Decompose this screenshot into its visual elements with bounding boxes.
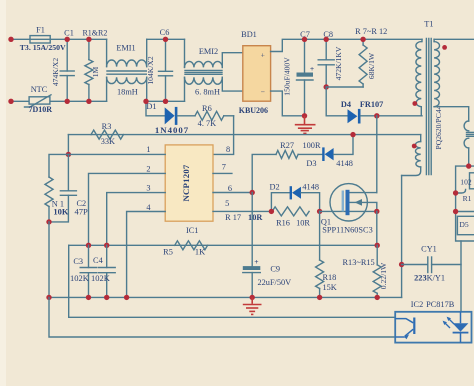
svg-text:R16: R16 <box>276 218 290 227</box>
resistor N1 10K <box>45 154 69 222</box>
capacitor CY1 223K/Y1 <box>402 244 461 282</box>
svg-text:PQ2620/PC44: PQ2620/PC44 <box>434 105 443 149</box>
wire: aux winding line R3 to T1 <box>68 134 420 136</box>
svg-text:D1: D1 <box>146 102 156 111</box>
wire: CY1 right vertical to network bottom and LED anode <box>460 241 462 312</box>
svg-text:C9: C9 <box>270 264 280 273</box>
svg-text:EMI2: EMI2 <box>199 47 218 56</box>
secondary winding <box>433 39 435 41</box>
node EMI1 / D1 junction <box>143 99 148 104</box>
svg-text:1M: 1M <box>91 66 100 77</box>
wire: secondary top output to right edge <box>434 38 474 40</box>
node gate <box>317 209 322 214</box>
node C4 gnd <box>104 295 109 300</box>
resistor R7~R12 68K/1W <box>355 27 387 87</box>
capacitor C4 102K <box>91 245 115 297</box>
svg-text:4148: 4148 <box>336 159 353 168</box>
transformer T1 PQ2620/PC44 <box>402 19 447 175</box>
node C7 bottom <box>302 113 307 118</box>
svg-text:D3: D3 <box>306 159 316 168</box>
common-mode choke EMI1 18mH <box>107 39 147 101</box>
svg-text:NTC: NTC <box>31 85 48 94</box>
wire: Vcc branch R27 top <box>252 154 276 192</box>
node C7 top <box>302 37 307 42</box>
node D4 cathode / drain junction <box>374 113 379 118</box>
node C9 gnd <box>250 295 255 300</box>
svg-text:CY1: CY1 <box>421 244 437 253</box>
node C1 bottom <box>65 99 70 104</box>
capacitor C2 47P <box>49 154 88 222</box>
pin 2 wire <box>89 173 166 245</box>
svg-text:2: 2 <box>146 164 150 173</box>
wire: BD1 - output down to C7 bottom <box>271 91 305 116</box>
svg-text:IC2: IC2 <box>411 300 423 309</box>
svg-text:R5: R5 <box>163 248 173 257</box>
wire: bottom line EMI1 to EMI2 <box>146 100 185 102</box>
resistor R6 4.7K <box>195 104 234 128</box>
wire: snubber bottom rail C8 to R7-R12 <box>326 86 363 88</box>
wire: CS rail (pin2/pin3 filter rail) <box>69 244 378 246</box>
pin 7 stub <box>213 172 232 174</box>
svg-text:EMI1: EMI1 <box>116 43 135 52</box>
wire: CS rail left end down to opto rail <box>69 245 396 317</box>
node sense <box>375 243 380 248</box>
node pin1 / R3 / C2 junction <box>66 152 71 157</box>
wire: NTC bottom line input N to EMI1 <box>11 100 107 102</box>
capacitor C1 474K/X2 <box>51 28 74 101</box>
IC U1: IC1 NCP1207 <box>165 145 213 235</box>
node C6 top <box>163 37 168 42</box>
pin 3 wire <box>107 193 166 246</box>
svg-text:3: 3 <box>146 184 150 193</box>
node secondary bottom / network <box>466 163 471 168</box>
thermistor NTC 7D10R <box>25 85 53 114</box>
node D3 / aux line junction <box>350 132 355 137</box>
svg-text:10R: 10R <box>248 213 263 222</box>
node network mid2 <box>453 209 458 214</box>
capacitor C9 22uF/50V <box>243 193 291 298</box>
svg-text:T1: T1 <box>424 19 433 28</box>
node R13-R15 gnd <box>375 295 380 300</box>
svg-text:T3. 15A/250V: T3. 15A/250V <box>20 43 66 52</box>
pin 6 wire <box>213 192 252 194</box>
diode D3 4148 <box>306 135 353 168</box>
primary winding <box>421 39 423 41</box>
node pin3 / rail <box>104 243 109 248</box>
svg-text:4. 7K: 4. 7K <box>198 119 216 128</box>
svg-text:FR107: FR107 <box>360 100 384 109</box>
svg-text:6. 8mH: 6. 8mH <box>195 87 220 96</box>
svg-text:1K: 1K <box>195 248 205 257</box>
wire: R3 left corner down to pin1 node <box>67 135 69 155</box>
svg-text:R3: R3 <box>102 122 112 131</box>
svg-text:104K/X2: 104K/X2 <box>146 56 155 84</box>
node C8 bottom <box>324 84 329 89</box>
resistor R3 33K <box>91 122 123 146</box>
capacitor C8 472K/1KV <box>318 30 343 87</box>
bridge rectifier BD1 KBU206 <box>239 30 271 115</box>
capacitor C3 102K <box>70 245 97 297</box>
capacitor C7 150uF/400V electrolytic <box>283 30 315 116</box>
svg-text:6: 6 <box>228 184 232 193</box>
svg-text:D2: D2 <box>270 182 280 191</box>
svg-text:D5: D5 <box>459 220 468 229</box>
ground: main ground below C9 <box>243 297 262 314</box>
resistor R16 10R <box>272 207 310 227</box>
wire: source down to sense node <box>376 211 378 245</box>
secondary feedback network (cut off at edge) <box>456 166 474 241</box>
svg-text:R 17: R 17 <box>225 213 241 222</box>
wire: secondary bottom output <box>434 107 469 121</box>
wire: snubber down to D4 anode <box>326 87 347 116</box>
capacitor C6 104K/X2 <box>146 28 173 101</box>
node pin4 gnd <box>124 295 129 300</box>
svg-text:18mH: 18mH <box>117 87 138 96</box>
resistor R13~R15 0.22/1W <box>343 245 388 297</box>
svg-text:1N4007: 1N4007 <box>155 125 189 135</box>
svg-text:R 7~R 12: R 7~R 12 <box>355 27 387 36</box>
svg-text:KBU206: KBU206 <box>239 106 268 115</box>
node: input terminal L <box>8 37 13 42</box>
svg-text:5: 5 <box>225 199 229 208</box>
svg-text:R18: R18 <box>323 273 337 282</box>
node C8 top <box>324 37 329 42</box>
svg-text:+: + <box>310 64 314 73</box>
inductor L (output choke at right edge) <box>464 121 474 166</box>
svg-text:R13~R15: R13~R15 <box>343 258 375 267</box>
wire: N1 bottom down to ground rail <box>48 222 50 298</box>
wire: top line EMI1 to EMI2 <box>147 38 185 40</box>
svg-text:+: + <box>254 257 258 266</box>
svg-text:102K: 102K <box>91 273 111 283</box>
resistor R1&R2 1M <box>82 28 107 101</box>
pin 4 wire <box>127 212 166 298</box>
node R18 gnd <box>317 295 322 300</box>
resistor R5 1K <box>163 241 207 257</box>
resistor R18 15K <box>316 211 337 297</box>
core <box>425 39 427 175</box>
svg-text:150uF/400V: 150uF/400V <box>283 57 292 96</box>
svg-text:C3: C3 <box>73 257 83 266</box>
node C6 bottom <box>163 99 168 104</box>
pin 5 wire (gate drive row) <box>213 210 271 212</box>
svg-text:C6: C6 <box>160 28 170 37</box>
svg-text:F1: F1 <box>36 26 45 35</box>
svg-text:47P: 47P <box>75 207 89 217</box>
wire: R6 down to IC1 pin 8 <box>213 116 234 155</box>
wire: BD1 + output to top DC rail <box>271 39 422 51</box>
opto LED <box>460 312 462 323</box>
svg-text:R6: R6 <box>202 104 212 113</box>
node C3 gnd <box>86 295 91 300</box>
svg-text:C1: C1 <box>64 28 74 37</box>
aux winding <box>420 135 422 142</box>
light arrows <box>444 322 450 328</box>
svg-text:100R: 100R <box>303 141 321 150</box>
svg-text:8: 8 <box>226 145 230 154</box>
transistor Q1 SPP11N60SC3 MOSFET <box>321 184 377 235</box>
node R1R2 top <box>86 37 91 42</box>
svg-text:R1&R2: R1&R2 <box>82 28 107 37</box>
svg-text:R1: R1 <box>463 194 472 203</box>
pin 1 wire <box>68 153 165 155</box>
node pin6 / Vcc junction <box>250 190 255 195</box>
node CY1 tap <box>399 262 404 267</box>
svg-text:22uF/50V: 22uF/50V <box>258 278 292 287</box>
svg-text:15K: 15K <box>323 283 337 292</box>
svg-text:223K/Y1: 223K/Y1 <box>414 274 445 283</box>
svg-text:68K/1W: 68K/1W <box>367 52 376 79</box>
node rail left <box>46 295 51 300</box>
wire: drain vertical <box>376 116 378 193</box>
diode D2 4148 (gate) <box>270 182 320 211</box>
svg-text:D4: D4 <box>341 100 351 109</box>
node: input terminal N <box>8 99 13 104</box>
node C1 top <box>65 37 70 42</box>
node N1/C2 bottom junction <box>46 219 51 224</box>
svg-text:102K: 102K <box>70 273 90 283</box>
svg-text:33K: 33K <box>101 137 115 146</box>
common-mode choke EMI2 6.8mH <box>185 39 244 101</box>
node R7-R12 top <box>360 37 365 42</box>
svg-text:0.22/1W: 0.22/1W <box>379 262 388 289</box>
node pin2 / rail <box>86 243 91 248</box>
diode D1 1N4007 <box>146 101 195 135</box>
svg-text:SPP11N60SC3: SPP11N60SC3 <box>322 226 372 235</box>
ground: primary ground below C7 <box>295 116 316 134</box>
node source <box>374 209 379 214</box>
svg-text:7D10R: 7D10R <box>29 105 53 114</box>
svg-text:C4: C4 <box>93 256 104 265</box>
diode D4 FR107 <box>341 100 422 124</box>
svg-text:1: 1 <box>146 145 150 154</box>
wire: primary ground rail <box>49 296 402 298</box>
svg-text:10K: 10K <box>53 206 69 216</box>
svg-text:474K/X2: 474K/X2 <box>51 58 60 86</box>
svg-text:PC817B: PC817B <box>426 300 455 309</box>
resistor R27 100R <box>276 141 323 158</box>
svg-text:NCP1207: NCP1207 <box>181 164 191 201</box>
wire: top AC line from input L to EMI1 <box>11 38 107 40</box>
svg-text:IC1: IC1 <box>186 226 198 235</box>
svg-text:BD1: BD1 <box>241 30 257 39</box>
svg-text:R27: R27 <box>280 141 294 150</box>
svg-text:472K/1KV: 472K/1KV <box>334 46 343 80</box>
wire: aux return / CY1 vertical <box>401 176 403 298</box>
opto phototransistor <box>413 318 415 335</box>
svg-text:102: 102 <box>460 177 472 186</box>
fuse F1 <box>20 26 66 52</box>
svg-text:10R: 10R <box>296 218 310 227</box>
node R1R2 bottom <box>86 99 91 104</box>
svg-text:−: − <box>261 87 265 96</box>
node R16/D2 left <box>269 209 274 214</box>
svg-text:+: + <box>261 50 265 59</box>
svg-text:7: 7 <box>222 163 226 172</box>
svg-text:4148: 4148 <box>302 182 319 191</box>
wire: lower rail to opto emitter <box>49 297 395 337</box>
node network mid1 <box>453 190 458 195</box>
wire: gate row through Q1 <box>320 210 377 212</box>
optocoupler IC2 PC817B <box>395 300 471 343</box>
